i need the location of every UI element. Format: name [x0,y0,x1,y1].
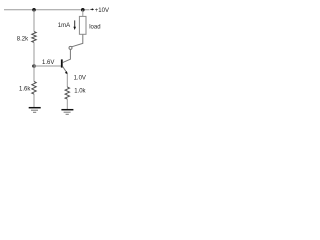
svg-text:8.2k: 8.2k [17,36,29,42]
svg-text:1mA: 1mA [58,23,70,29]
svg-text:1.6k: 1.6k [19,87,31,93]
svg-text:load: load [89,24,100,30]
svg-text:1.0V: 1.0V [74,75,86,81]
svg-text:1.6V: 1.6V [42,60,54,66]
svg-text:1.0k: 1.0k [74,88,86,94]
svg-text:+10V: +10V [95,8,109,14]
